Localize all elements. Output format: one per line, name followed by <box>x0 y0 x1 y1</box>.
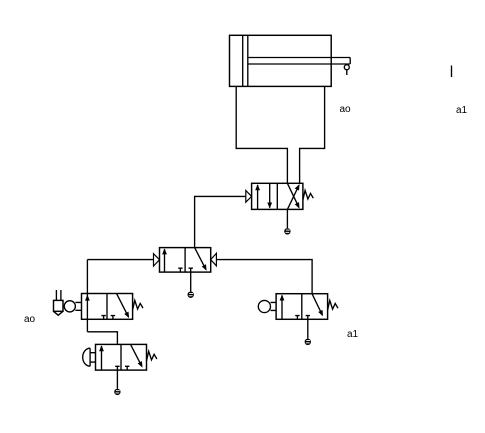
valve a1 up arrow <box>280 295 285 320</box>
valve a1 blocked port T1 <box>295 316 299 320</box>
middle valve V2 (3/2 double pilot) body <box>160 248 211 273</box>
valve V1 left box down arrow <box>267 183 272 208</box>
valve ao return spring <box>133 300 143 310</box>
start valve mushroom button <box>83 348 90 366</box>
limit valve a1 (3/2 roller) body <box>276 294 328 320</box>
valve V2 blocked port T1 <box>178 268 182 272</box>
start valve blocked port T2 <box>125 366 129 370</box>
wire: valve ao supply from start valve <box>87 332 117 345</box>
valve ao exhaust diagonal arrow <box>117 294 132 319</box>
valve V1 left box up arrow <box>255 184 260 209</box>
limit position marker a1 tick <box>451 66 453 78</box>
valve ao roller block <box>54 300 64 311</box>
start valve exhaust symbol <box>114 389 120 395</box>
wire: middle valve output to V1 pilot <box>195 196 246 247</box>
valve V1 (4/2-way) body <box>252 183 303 209</box>
valve ao blocked port T2 <box>111 316 115 320</box>
start valve blocked port T1 with exhaust stem <box>115 366 119 388</box>
valve a1 divider <box>301 294 303 320</box>
svg-text:a1: a1 <box>456 105 468 116</box>
start valve divider <box>120 344 122 370</box>
valve V1 exhaust line <box>286 209 288 228</box>
valve a1 blocked port T2 with exhaust stem <box>306 316 310 339</box>
limit valve ao (3/2 roller) body <box>82 294 133 320</box>
valve V2 exhaust diagonal arrow <box>195 248 209 272</box>
valve a1 roller wheel <box>258 300 270 312</box>
start valve up arrow <box>99 345 104 370</box>
valve V1 divider <box>276 183 278 209</box>
wire: valve a1 output to V2 right pilot <box>216 260 312 294</box>
valve ao roller stem <box>75 302 81 310</box>
cylinder piston rod <box>248 58 350 65</box>
valve V2 divider <box>184 248 186 273</box>
valve V2 up arrow <box>162 248 167 272</box>
valve ao roller wedge <box>54 311 64 315</box>
valve V1 return spring <box>303 190 313 200</box>
cylinder piston <box>243 35 248 86</box>
svg-text:a1: a1 <box>347 329 359 340</box>
start valve (3/2 push button) body <box>96 344 147 370</box>
valve a1 exhaust diagonal arrow <box>312 294 325 318</box>
start valve return spring <box>147 351 157 361</box>
rod cam (limit actuator at ao) <box>344 65 349 75</box>
valve V1 crossed arrows <box>287 183 301 210</box>
wire: roller valve ao output to V2 left pilot <box>87 259 153 261</box>
cylinder A (double-acting) body <box>230 35 332 86</box>
valve a1 exhaust symbol <box>305 339 311 345</box>
valve ao blocked port T1 <box>101 316 105 320</box>
wire: cylinder left port to valve V1 port <box>236 86 287 183</box>
wire: cylinder right port to valve V1 port <box>300 86 325 183</box>
valve a1 return spring <box>328 301 338 311</box>
svg-text:ao: ao <box>340 104 352 115</box>
valve V1 pilot triangle (left) <box>246 191 252 203</box>
valve V2 exhaust symbol <box>188 292 194 298</box>
start valve exhaust diagonal arrow <box>131 345 145 369</box>
valve ao roller fork <box>56 290 61 300</box>
valve ao roller wheel <box>64 301 75 312</box>
start valve button stem <box>90 353 95 362</box>
valve ao flow line with up arrow <box>85 260 90 332</box>
valve ao divider <box>106 294 108 320</box>
valve V2 exhaust line <box>190 272 192 291</box>
valve V2 blocked port T2 <box>189 268 193 272</box>
valve a1 roller stem <box>271 302 277 310</box>
valve V2 pilot triangle (right) <box>211 253 217 265</box>
valve V2 pilot triangle (left) <box>154 254 160 266</box>
svg-text:ao: ao <box>24 314 36 325</box>
valve V1 exhaust symbol <box>284 228 290 234</box>
